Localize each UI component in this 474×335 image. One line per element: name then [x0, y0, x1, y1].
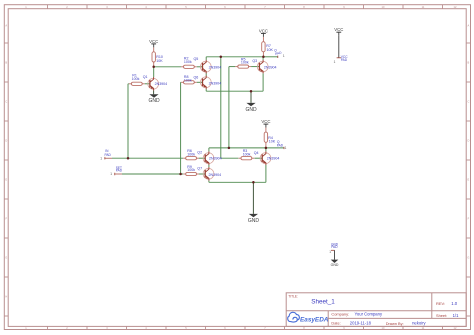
wire R8 to Q6 base — [197, 81, 203, 83]
svg-text:Q1: Q1 — [143, 75, 148, 79]
junction node 3 — [262, 56, 265, 59]
wire Q2 collector riser — [208, 148, 210, 152]
title block row divider 1 — [286, 310, 466, 312]
svg-text:PAD: PAD — [105, 153, 112, 157]
wire GND pad stem — [334, 250, 336, 259]
wire Q5 emitter to Q6 collector — [205, 74, 207, 76]
svg-text:1.0: 1.0 — [451, 301, 458, 306]
svg-text:A: A — [468, 24, 470, 28]
wire IN pad to R6 — [112, 157, 183, 159]
border zone ticks — [47, 5, 49, 9]
svg-text:2N3904: 2N3904 — [209, 157, 222, 161]
svg-text:1: 1 — [285, 146, 287, 150]
wire R5 riser to R5 — [229, 66, 235, 68]
svg-text:GND: GND — [148, 98, 160, 104]
wire R9 to Q7 base — [199, 173, 205, 175]
junction node 2 — [220, 56, 223, 59]
svg-text:100k: 100k — [187, 168, 195, 172]
junction node 6 — [179, 173, 182, 176]
svg-text:TITLE:: TITLE: — [288, 295, 298, 299]
resistor R4 — [265, 128, 267, 133]
svg-text:10K: 10K — [267, 48, 274, 52]
transistor Q2 — [203, 153, 214, 164]
pad VCC pin tick — [337, 57, 341, 59]
resistor R1 — [129, 83, 132, 85]
svg-text:B: B — [468, 61, 470, 65]
ground (middle section) — [249, 214, 258, 217]
pad IN pin — [104, 157, 112, 159]
wire cross-couple Y1 down to R3 — [220, 57, 222, 158]
svg-text:1: 1 — [100, 156, 102, 160]
pad SET pin — [114, 173, 122, 175]
wire Y2 node to Q pad — [266, 147, 284, 149]
svg-text:100k: 100k — [243, 152, 251, 156]
svg-text:PAD: PAD — [275, 50, 283, 56]
wire Q6 emitter drop — [205, 89, 207, 91]
title block logo cell divider — [327, 311, 329, 327]
wire Q5 collector riser — [205, 57, 207, 60]
svg-text:F: F — [468, 217, 470, 221]
wire GND stem top section — [250, 91, 252, 103]
wire R5 to Q3 base — [251, 66, 259, 68]
wire riser top to R8 — [180, 81, 182, 83]
svg-text:10K: 10K — [269, 140, 276, 144]
svg-text:Q7: Q7 — [197, 167, 202, 171]
svg-text:GND: GND — [245, 107, 257, 113]
svg-text:Q3: Q3 — [252, 59, 257, 63]
svg-text:2N3904: 2N3904 — [264, 66, 277, 70]
svg-text:Q5: Q5 — [194, 57, 199, 61]
wire Y1 bus (Q5 collector to R7 node) — [206, 56, 263, 58]
wire SET pad to R9 — [122, 173, 183, 175]
junction node 5 — [127, 157, 130, 160]
wire Q3 collector riser — [262, 57, 264, 60]
svg-text:D: D — [5, 139, 7, 143]
wire R6 to Q2 base — [199, 157, 205, 159]
wire Q4 emitter drop — [265, 165, 267, 182]
wire bottom bus middle section — [209, 181, 266, 183]
svg-text:PAD: PAD — [341, 58, 348, 62]
wire R3 to Q4 base — [255, 157, 263, 159]
svg-text:EasyEDA: EasyEDA — [300, 316, 329, 323]
wire R2 to Q5 base — [197, 66, 203, 68]
title block outline — [286, 293, 466, 327]
svg-text:A: A — [5, 24, 7, 28]
svg-text:REV:: REV: — [436, 301, 445, 306]
svg-text:E: E — [5, 178, 7, 182]
junction node 9 — [252, 181, 255, 184]
transistor Q6 — [200, 77, 211, 88]
wire riser to R1 — [127, 83, 130, 85]
svg-text:B: B — [5, 61, 7, 65]
svg-text:VCC: VCC — [334, 27, 343, 32]
wire Q4 collector riser — [265, 148, 267, 152]
transistor Q5 — [200, 61, 211, 72]
wire VCC pad stem — [338, 36, 340, 58]
svg-text:GND: GND — [331, 263, 339, 267]
wire IN riser to R1 — [127, 84, 129, 158]
svg-text:PAD: PAD — [331, 245, 338, 249]
svg-text:C: C — [467, 100, 469, 104]
svg-text:Date:: Date: — [331, 321, 340, 326]
wire node to R2 (inverted IN bus) — [154, 66, 181, 68]
svg-text:100k: 100k — [132, 77, 140, 81]
svg-text:VCC: VCC — [259, 28, 268, 33]
wire Q1 collector to node — [153, 67, 155, 77]
svg-text:2N3904: 2N3904 — [209, 173, 222, 177]
transistor Q4 — [260, 153, 271, 164]
svg-text:Sheet_1: Sheet_1 — [311, 299, 335, 306]
svg-text:1/1: 1/1 — [453, 313, 459, 318]
svg-text:G: G — [467, 256, 469, 260]
transistor Q3 — [257, 61, 268, 72]
svg-text:G: G — [5, 256, 7, 260]
svg-text:VCC: VCC — [261, 119, 270, 124]
wire Q7 emitter drop — [208, 181, 210, 183]
resistor R3 — [239, 157, 242, 159]
wire Q1 emitter stem — [153, 91, 155, 95]
transistor Q7 — [203, 168, 214, 179]
pad GND pin tick — [331, 249, 335, 251]
svg-text:Q4: Q4 — [254, 151, 259, 155]
svg-text:Your Company: Your Company — [355, 312, 383, 317]
ground (top section) — [246, 103, 255, 106]
svg-text:F: F — [6, 217, 8, 221]
svg-text:10K: 10K — [156, 59, 163, 63]
svg-text:2019-11-18: 2019-11-18 — [350, 321, 372, 326]
wire Y1 node to Q pad — [263, 56, 277, 58]
wire SET riser to R8 — [180, 82, 182, 174]
transistor Q1 — [148, 78, 159, 89]
svg-text:1: 1 — [329, 250, 331, 254]
ground (GND pad) — [331, 260, 339, 263]
resistor R2 — [181, 66, 184, 68]
svg-text:Q6: Q6 — [194, 76, 199, 80]
svg-text:Company:: Company: — [331, 312, 349, 317]
svg-text:Sheet:: Sheet: — [436, 313, 447, 318]
wire R5 riser down to Y2 — [228, 67, 230, 148]
wire Q3 emitter drop — [262, 73, 264, 91]
resistor R9 — [183, 173, 186, 175]
EasyEDA logo cloud — [288, 312, 300, 321]
svg-text:100k: 100k — [184, 79, 192, 83]
svg-text:C: C — [5, 100, 7, 104]
svg-text:100k: 100k — [187, 152, 195, 156]
junction node 7 — [228, 147, 231, 150]
resistor R6 — [183, 157, 186, 159]
svg-text:VCC: VCC — [149, 39, 158, 44]
svg-text:1: 1 — [334, 60, 336, 64]
svg-text:GND: GND — [248, 218, 260, 224]
svg-text:100k: 100k — [241, 61, 249, 65]
junction node 1 — [152, 66, 155, 69]
svg-text:2N3904: 2N3904 — [209, 81, 222, 85]
wire Y2 bus (Q2 collector to R4 node) — [209, 147, 266, 149]
wire Q2 emitter to Q7 collector — [208, 165, 210, 167]
junction node 8 — [265, 147, 268, 150]
svg-text:PAD: PAD — [116, 169, 123, 173]
ground (Q1 emitter) — [149, 94, 158, 97]
resistor R7 — [262, 37, 264, 42]
resistor R10 — [153, 47, 155, 51]
svg-text:Drawn By:: Drawn By: — [386, 321, 404, 326]
svg-text:PAD: PAD — [277, 143, 284, 147]
wire R3 feed from Y1 riser — [221, 157, 239, 159]
svg-text:D: D — [467, 139, 469, 143]
svg-text:Q2: Q2 — [197, 151, 202, 155]
svg-text:1: 1 — [283, 54, 285, 58]
svg-text:1: 1 — [110, 172, 112, 176]
svg-text:2N3904: 2N3904 — [155, 82, 168, 86]
wire GND stem middle section — [252, 182, 254, 214]
svg-text:100k: 100k — [184, 60, 192, 64]
wire bottom bus top section — [206, 90, 263, 92]
svg-text:nekoiry: nekoiry — [412, 321, 426, 326]
resistor R5 — [235, 66, 238, 68]
wire R1 to Q1 base — [145, 83, 150, 85]
junction node 4 — [250, 90, 253, 93]
svg-text:H: H — [5, 295, 7, 299]
pad Q (top output) tick — [277, 56, 279, 58]
svg-text:2N3904: 2N3904 — [267, 157, 280, 161]
title block rev cell divider — [431, 293, 433, 319]
svg-text:E: E — [468, 178, 470, 182]
title block row divider 2 — [328, 317, 466, 319]
pad Q (middle output) tick — [283, 147, 285, 149]
resistor R8 — [181, 81, 184, 83]
svg-text:2N3904: 2N3904 — [209, 66, 222, 70]
